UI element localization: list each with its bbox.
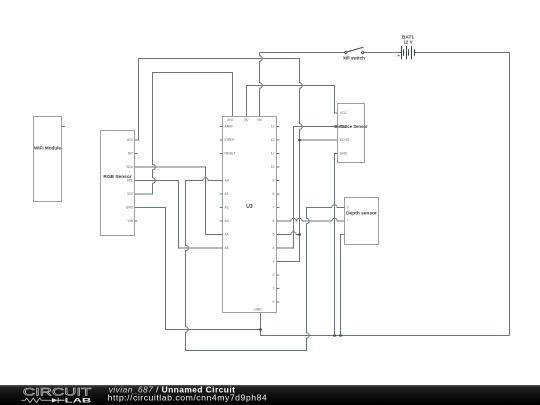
microcontroller U3	[220, 117, 280, 313]
svg-text:A3: A3	[225, 219, 229, 223]
junction: Echo node	[298, 139, 301, 142]
svg-text:A2: A2	[225, 206, 229, 210]
switch lever arm	[347, 47, 363, 52]
svg-text:IOREF: IOREF	[225, 138, 235, 142]
svg-text:3: 3	[272, 260, 274, 264]
svg-text:A4: A4	[225, 233, 229, 237]
junction: pin5 node	[298, 233, 301, 236]
svg-text:LED: LED	[127, 138, 134, 142]
wire: RGB SDA right and down to U3 A4	[135, 167, 223, 235]
wire: RGB GND down and right to U3 GND junction	[135, 208, 261, 330]
wire: U3 GND pin down and right along ground rail to right edge	[261, 313, 510, 336]
RGB Sensor pin stubs LED INT SDA SCL 3V3 GND VIN	[135, 140, 138, 221]
svg-text:3V3: 3V3	[127, 192, 133, 196]
wire: U3 pin6 right to Depth sensor middle pin	[277, 218, 345, 221]
module: RGB Sensor	[101, 131, 138, 236]
logo diode	[52, 398, 58, 403]
svg-text:SCL: SCL	[127, 179, 134, 183]
wire: Depth sensor bottom pin down to ground rail	[341, 235, 345, 336]
footer bar	[0, 384, 540, 405]
svg-text:8: 8	[272, 192, 274, 196]
svg-text:GND: GND	[340, 152, 348, 156]
wire: Vin vertical from top rail to U3 Vin pin	[260, 53, 263, 117]
svg-text:http://circuitlab.com/cnn4my7d: http://circuitlab.com/cnn4my7d9ph84	[108, 392, 268, 402]
wire: RGB LED net across top and down to Echo/pin5/pin3	[135, 59, 303, 262]
junction: Depth sensor ground on rail	[339, 334, 342, 337]
svg-text:+: +	[347, 219, 349, 223]
svg-text:kill switch: kill switch	[343, 55, 365, 60]
svg-text:11: 11	[271, 152, 275, 156]
svg-text:4: 4	[272, 246, 274, 250]
Distance Sensor pin stubs VCC TRIG ECHO GND	[335, 113, 338, 154]
svg-text:WiFi Module: WiFi Module	[34, 145, 61, 150]
svg-text:GND: GND	[254, 307, 262, 311]
svg-text:+: +	[397, 53, 400, 59]
wire: Distance Sensor GND pin down to ground rail	[335, 154, 338, 336]
module: Depth sensor	[342, 198, 379, 245]
svg-text:9: 9	[272, 179, 274, 183]
junction: Distance GND on ground rail	[333, 334, 336, 337]
svg-text:SDA: SDA	[126, 165, 134, 169]
svg-text:Distance Sensor: Distance Sensor	[334, 124, 367, 130]
svg-text:LAB: LAB	[65, 397, 92, 404]
svg-text:Vin: Vin	[257, 118, 262, 122]
svg-text:0: 0	[272, 300, 274, 304]
svg-text:10: 10	[271, 165, 275, 169]
logo resistor zigzag	[22, 398, 52, 402]
wire: U3 A0 net down, across bottom, up to Depth sensor top pin	[186, 178, 345, 351]
svg-text:A5: A5	[225, 246, 229, 250]
svg-text:-: -	[347, 233, 348, 237]
svg-text:AREF: AREF	[225, 125, 234, 129]
module: Distance Sensor	[334, 104, 367, 163]
svg-text:Depth sensor: Depth sensor	[346, 210, 377, 216]
junction: U3 GND node	[259, 328, 262, 331]
Depth sensor pin stubs	[342, 208, 345, 235]
wire: kill switch to battery BAT1 positive	[364, 52, 402, 54]
svg-text:12: 12	[271, 138, 275, 142]
svg-text:12 V: 12 V	[403, 40, 412, 45]
svg-text:U3: U3	[246, 204, 253, 210]
wire: U3 pin4 up and right to Distance Sensor TRIG pin	[277, 127, 338, 249]
svg-text:VIN: VIN	[128, 219, 134, 223]
WiFi Module pin stub	[62, 126, 66, 128]
svg-text:6: 6	[272, 219, 274, 223]
svg-text:5: 5	[272, 233, 274, 237]
svg-text:RESET: RESET	[225, 152, 236, 156]
svg-text:2: 2	[272, 273, 274, 277]
switch SW1 kill switch	[343, 47, 365, 60]
switch terminal circles	[345, 51, 347, 53]
wire: RGB 3V3 pin up to U3 3V3 pin	[135, 73, 233, 195]
svg-text:A1: A1	[225, 192, 229, 196]
svg-text:13: 13	[271, 125, 275, 129]
svg-text:INT: INT	[128, 152, 133, 156]
svg-text:7: 7	[272, 206, 274, 210]
wire: RGB SCL right and down to U3 A5	[135, 181, 223, 249]
wire: Echo junction to Distance Sensor ECHO pin	[300, 139, 338, 141]
battery long plates	[402, 46, 412, 59]
svg-text:A0: A0	[225, 179, 229, 183]
svg-text:VCC: VCC	[340, 111, 348, 115]
battery short plates	[404, 49, 415, 55]
U3 left pin stubs AREF IOREF RESET A0-A5	[220, 127, 223, 249]
wire: top supply rail, Vin corner to kill switch	[260, 52, 345, 54]
U3 right pin stubs 13..0	[277, 127, 280, 303]
svg-text:1: 1	[272, 287, 274, 291]
module: WiFi Module	[34, 117, 66, 202]
svg-text:3V3: 3V3	[227, 118, 233, 122]
wire: U3 5V pin up and right to Distance Sensor VCC	[247, 86, 338, 117]
wire: U3 pin5 right to LED net junction	[277, 232, 300, 235]
svg-text:ECHO: ECHO	[340, 138, 350, 142]
svg-text:GND: GND	[126, 206, 134, 210]
wire: battery negative to right edge, down to ground rail	[415, 53, 510, 336]
battery BAT1 12 V	[397, 35, 414, 60]
